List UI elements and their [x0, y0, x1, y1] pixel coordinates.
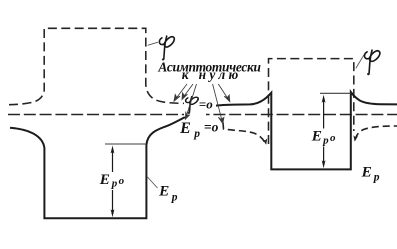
annotation arrow 4 (to dashed tail corner below axis) [213, 84, 224, 124]
phi label, right barrier [364, 50, 379, 74]
svg-text:E: E [311, 128, 322, 145]
E_p0 depth marker, right well: reference tick [320, 92, 351, 94]
annotation arrow 3 (to solid curve at E_p=0) [185, 84, 196, 119]
E_p0 depth marker, left well: double arrow [112, 149, 114, 214]
dashed E_p tail right of right barrier (below axis) [355, 126, 397, 140]
svg-text:=o: =o [199, 96, 213, 111]
svg-text:E: E [99, 171, 110, 188]
label E_p right well [361, 164, 380, 184]
svg-text:p: p [373, 171, 380, 183]
arrowhead of dashed tail at left wall base [262, 138, 267, 145]
leader line to E_p label, left well [147, 177, 158, 189]
phi label, left barrier [159, 36, 174, 60]
svg-text:E: E [361, 164, 372, 181]
svg-text:p: p [171, 191, 178, 203]
E_p0 depth marker, right well: double arrow [323, 98, 325, 165]
label E_p=0 below axis [179, 120, 220, 141]
svg-text:o: o [330, 132, 336, 144]
svg-text:p: p [111, 178, 118, 190]
dashed E_p tail left of right barrier (below axis) [223, 123, 265, 144]
label E_p left well [158, 183, 178, 204]
svg-text:E: E [158, 183, 169, 200]
leader line to phi label, left barrier [148, 42, 158, 45]
label E_p0 right well [310, 128, 339, 147]
arrowhead of dashed tail at right wall base [353, 135, 358, 141]
zero axis (horizontal dashed line) [8, 114, 397, 116]
annotation arrow 5 (to solid flat curve right of phi=0) [218, 84, 230, 102]
leader line to phi label, right barrier [356, 52, 366, 68]
label phi=0 on axis [184, 96, 216, 117]
svg-text:p: p [193, 128, 200, 140]
dashed potential barrier phi, left junction [9, 28, 194, 104]
solid E_p potential curve (wells) [10, 92, 397, 218]
svg-text:=o: =o [204, 120, 219, 135]
svg-text:E: E [179, 120, 191, 137]
svg-text:p: p [322, 135, 329, 147]
E_p0 depth marker, left well: reference tick [105, 143, 146, 145]
dashed potential barrier phi, right junction [269, 59, 354, 144]
label E_p0 left well [98, 171, 127, 190]
annotation arrow 2 (to dashed curve at phi=0) [182, 84, 193, 100]
annotation arrow 1 (to left dashed foot) [174, 84, 187, 101]
svg-text:o: o [119, 175, 125, 187]
